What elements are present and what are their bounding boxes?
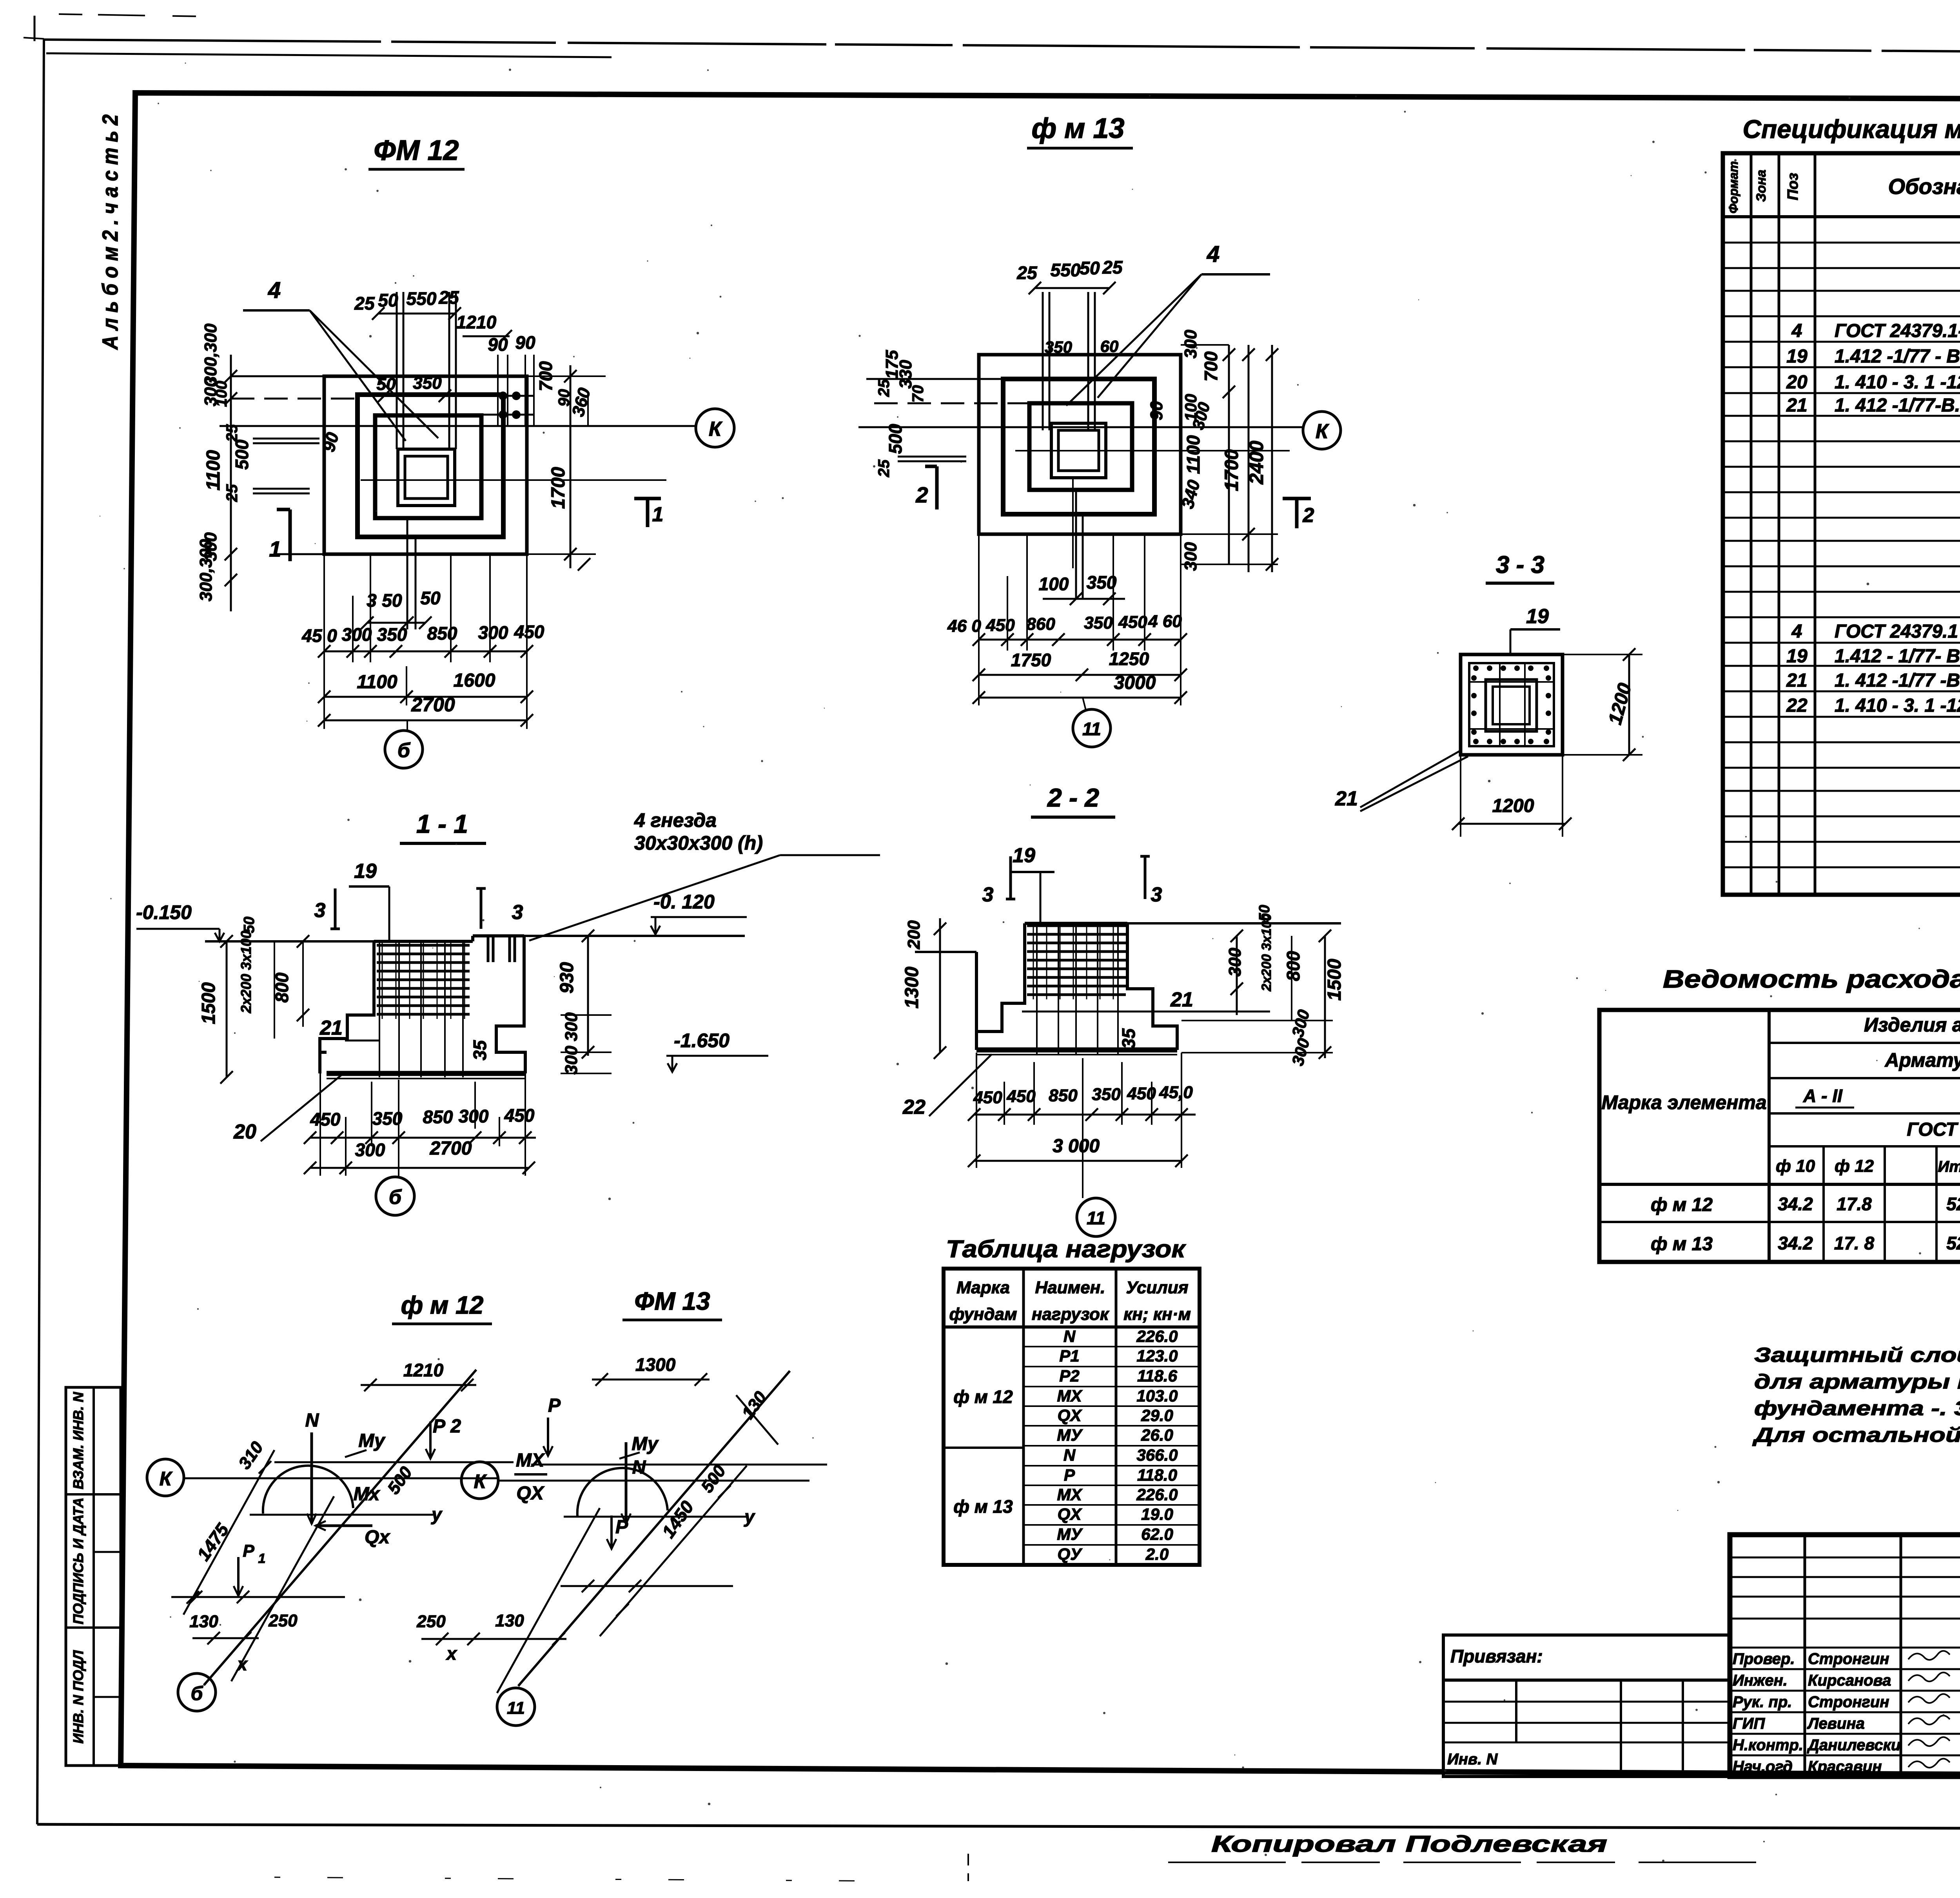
svg-text:х: х: [445, 1643, 457, 1664]
FM13 step square 1: [1003, 379, 1154, 514]
FM13 anchor bolt lines: [1042, 292, 1044, 430]
bottom small marks: [967, 1854, 969, 1881]
spec table grid: [1723, 153, 1960, 895]
section 2-2 outline left: [975, 952, 978, 1050]
svg-text:1. 410 - 3. 1 -12: 1. 410 - 3. 1 -12: [1835, 372, 1960, 393]
FM12 plan outer square: [324, 376, 527, 554]
svg-text:500: 500: [885, 424, 906, 454]
svg-text:70: 70: [909, 385, 927, 403]
svg-text:300: 300: [1225, 948, 1245, 977]
svg-text:ф 10: ф 10: [1776, 1157, 1815, 1176]
svg-text:N: N: [305, 1410, 319, 1431]
svg-text:200: 200: [904, 920, 924, 950]
FM13 column (double square): [1051, 423, 1106, 478]
title block small grid verticals: [1804, 1535, 1806, 1777]
svg-text:1 - 1: 1 - 1: [416, 809, 468, 838]
svg-text:250: 250: [416, 1612, 446, 1631]
svg-text:19: 19: [1786, 646, 1808, 667]
svg-text:QХ: QХ: [1058, 1406, 1083, 1425]
svg-text:-1.650: -1.650: [674, 1030, 730, 1051]
axo FM13 Mx arc: [577, 1468, 668, 1516]
svg-text:330: 330: [896, 360, 915, 389]
svg-text:100: 100: [1039, 574, 1069, 594]
svg-text:1600: 1600: [454, 670, 495, 691]
svg-text:Р: Р: [615, 1517, 628, 1537]
svg-text:52.0: 52.0: [1946, 1233, 1960, 1253]
svg-text:1200: 1200: [1492, 796, 1534, 816]
svg-text:К: К: [160, 1468, 173, 1490]
axo FM12 y axis: [250, 1514, 433, 1516]
svg-text:фундамента -. 35мм,: фундамента -. 35мм,: [1754, 1397, 1960, 1420]
FM12 step square 1: [358, 395, 503, 537]
svg-text:1: 1: [652, 503, 664, 526]
svg-text:К: К: [1316, 420, 1329, 443]
section 1-1 socket channels: [487, 937, 490, 962]
section 2-2 ground line left: [915, 951, 976, 953]
axo FM12 P2 arrow: [429, 1421, 432, 1459]
svg-text:90: 90: [515, 332, 535, 353]
svg-text:ф м 12: ф м 12: [953, 1387, 1013, 1407]
svg-text:QУ: QУ: [1057, 1545, 1083, 1564]
svg-text:450: 450: [1006, 1087, 1036, 1106]
svg-text:850: 850: [423, 1107, 453, 1127]
svg-text:21: 21: [319, 1017, 343, 1039]
title block small grid rows: [1730, 1557, 1960, 1559]
svg-text:Формат: Формат: [1726, 161, 1740, 214]
svg-text:у: у: [431, 1504, 443, 1525]
svg-text:Защитный слой бетона: Защитный слой бетона: [1754, 1344, 1960, 1367]
svg-text:N: N: [1063, 1446, 1076, 1464]
svg-text:1100: 1100: [203, 450, 224, 491]
svg-text:17.8: 17.8: [1837, 1194, 1872, 1214]
svg-text:3000: 3000: [1114, 673, 1156, 693]
FM13 right dim lines: [1181, 344, 1229, 346]
svg-text:4: 4: [1207, 241, 1220, 267]
svg-text:Р2: Р2: [1059, 1367, 1079, 1385]
svg-text:850: 850: [1049, 1086, 1078, 1105]
section 2-2 label 21 leader line: [1022, 1011, 1270, 1013]
detail 3-3 tie lines: [1499, 663, 1501, 746]
svg-text:103.0: 103.0: [1136, 1387, 1178, 1405]
axo FM12 bottom dim line: [192, 1637, 259, 1639]
section 1-1 base slab membrane: [327, 1071, 525, 1076]
svg-text:1100: 1100: [357, 672, 397, 692]
svg-text:450: 450: [985, 616, 1015, 635]
svg-text:550: 550: [1051, 260, 1081, 280]
svg-text:1750: 1750: [1011, 650, 1051, 670]
svg-text:19: 19: [1013, 844, 1035, 867]
svg-text:20: 20: [1786, 372, 1808, 393]
svg-text:300: 300: [1181, 542, 1200, 571]
FM13 section mark T2: [1295, 499, 1299, 528]
svg-text:130: 130: [189, 1612, 218, 1631]
svg-text:2700: 2700: [430, 1138, 472, 1159]
svg-text:45 0: 45 0: [301, 625, 337, 646]
svg-text:226.0: 226.0: [1136, 1327, 1178, 1345]
axo FM12 b circle: [178, 1673, 216, 1711]
axo FM13 bottom dim line: [421, 1638, 566, 1640]
svg-text:11: 11: [1082, 719, 1101, 739]
svg-text:Для остальной - 25 мм.: Для остальной - 25 мм.: [1752, 1424, 1960, 1447]
svg-text:50: 50: [382, 590, 402, 611]
FM12 column (double square): [398, 449, 455, 506]
svg-text:930: 930: [557, 962, 577, 993]
svg-text:300: 300: [562, 1012, 581, 1041]
svg-text:3 - 3: 3 - 3: [1496, 551, 1544, 578]
svg-text:34.2: 34.2: [1778, 1194, 1813, 1214]
svg-text:ф м 13: ф м 13: [1651, 1234, 1713, 1254]
section 2-2 pedestal top: [1025, 922, 1127, 925]
section 2-2 base membrane: [976, 1048, 1177, 1053]
loads table grid: [944, 1269, 1200, 1565]
svg-text:ф м 13: ф м 13: [953, 1496, 1013, 1517]
axo FM12 horizontal upper: [274, 1461, 514, 1463]
svg-text:-0. 120: -0. 120: [653, 891, 715, 913]
svg-text:50: 50: [378, 290, 398, 310]
FM12 step square 2: [375, 415, 481, 518]
svg-text:1300: 1300: [635, 1354, 676, 1375]
section 1-1 ground line right: [524, 935, 745, 937]
svg-text:50: 50: [377, 375, 396, 394]
section 2-2 bottom extensions: [976, 1053, 977, 1168]
vedomost grid: [1599, 1010, 1960, 1262]
svg-text:34.2: 34.2: [1778, 1233, 1813, 1253]
svg-text:2х200 3х100: 2х200 3х100: [1259, 914, 1274, 992]
svg-text:300: 300: [355, 1140, 385, 1160]
left stamp boxes: [66, 1387, 121, 1766]
svg-text:1. 410 - 3. 1 -12: 1. 410 - 3. 1 -12: [1835, 695, 1960, 716]
svg-text:4 гнезда: 4 гнезда: [634, 809, 717, 831]
svg-text:1210: 1210: [403, 1360, 444, 1380]
svg-text:52.0: 52.0: [1946, 1194, 1960, 1214]
svg-text:130: 130: [495, 1611, 524, 1630]
section 1-1 vertical bars: [379, 943, 380, 1077]
FM13 step square 2: [1029, 403, 1132, 490]
svg-text:Таблица нагрузок: Таблица нагрузок: [946, 1236, 1186, 1263]
section 1-1 ground line left: [205, 940, 374, 943]
svg-text:118.0: 118.0: [1137, 1466, 1177, 1484]
svg-text:Провер.: Провер.: [1733, 1650, 1795, 1668]
axo FM13 11 circle: [497, 1688, 535, 1726]
svg-text:25: 25: [1102, 257, 1123, 277]
svg-text:350: 350: [377, 624, 407, 645]
section 1-1 rebar cage: [377, 944, 470, 947]
svg-text:Кирсанова: Кирсанова: [1808, 1672, 1891, 1689]
svg-text:2 - 2: 2 - 2: [1047, 783, 1099, 812]
svg-text:Изделия арматурные: Изделия арматурные: [1864, 1014, 1960, 1036]
svg-text:1700: 1700: [1221, 449, 1242, 491]
svg-text:25: 25: [354, 293, 375, 314]
svg-text:Копировал Подлевская: Копировал Подлевская: [1211, 1831, 1607, 1857]
svg-text:29.0: 29.0: [1141, 1406, 1173, 1425]
axo FM13 N arrow: [625, 1442, 628, 1524]
svg-text:860: 860: [1026, 615, 1055, 634]
svg-text:1. 412 -1/77 -В.3-110: 1. 412 -1/77 -В.3-110: [1835, 670, 1960, 691]
svg-text:1250: 1250: [1109, 649, 1149, 669]
svg-text:26.0: 26.0: [1141, 1426, 1173, 1444]
svg-text:Марка элемента: Марка элемента: [1601, 1091, 1766, 1113]
svg-text:3: 3: [982, 883, 994, 906]
FM12 centre axis: [361, 479, 666, 481]
svg-text:2: 2: [915, 482, 928, 507]
axo FM13 1450 dim line: [600, 1466, 747, 1636]
svg-text:50: 50: [1080, 258, 1100, 278]
svg-text:1300: 1300: [902, 966, 922, 1008]
svg-text:35: 35: [1118, 1028, 1139, 1049]
axo FM13 main axis line: [518, 1371, 790, 1686]
svg-text:850: 850: [427, 623, 457, 644]
axo FM12 P1 arrow: [237, 1557, 240, 1596]
svg-text:1.412 -1/77 - В.3 -040: 1.412 -1/77 - В.3 -040: [1835, 346, 1960, 367]
svg-text:Итого: Итого: [1938, 1158, 1960, 1175]
svg-text:118.6: 118.6: [1137, 1367, 1178, 1385]
svg-text:4: 4: [1791, 321, 1802, 341]
svg-text:Нач.огд: Нач.огд: [1733, 1758, 1793, 1775]
svg-text:350: 350: [1087, 572, 1117, 593]
svg-text:МУ: МУ: [1057, 1426, 1083, 1444]
svg-text:21: 21: [1170, 988, 1193, 1011]
svg-text:Рук. пр.: Рук. пр.: [1733, 1693, 1792, 1711]
axo FM13 horizontal upper: [531, 1464, 827, 1466]
svg-text:кн; кн·м: кн; кн·м: [1123, 1305, 1191, 1324]
svg-text:Му: Му: [358, 1430, 386, 1451]
axo FM13 P dim line: [561, 1585, 733, 1587]
axo FM12 K circle: [147, 1459, 184, 1496]
svg-text:60: 60: [1100, 337, 1119, 355]
svg-text:19: 19: [1526, 605, 1549, 628]
svg-text:МХ: МХ: [516, 1450, 545, 1471]
section 1-1 bottom extensions: [319, 1073, 321, 1176]
FM13 left extensions: [866, 378, 1003, 380]
FM12 bottom extension verticals: [323, 554, 325, 729]
svg-text:фундам: фундам: [949, 1305, 1017, 1324]
svg-text:50: 50: [420, 588, 441, 608]
svg-text:90: 90: [488, 334, 508, 355]
FM12 vertical channel below: [407, 518, 408, 629]
FM13 axis circle K: [1303, 412, 1341, 449]
svg-text:500: 500: [232, 439, 252, 470]
FM13 left bracket lines: [898, 456, 966, 458]
svg-text:К: К: [709, 418, 722, 441]
svg-text:Зона: Зона: [1754, 170, 1769, 202]
svg-text:Стронгин: Стронгин: [1808, 1693, 1889, 1711]
svg-text:Р1: Р1: [1059, 1347, 1079, 1365]
svg-text:4: 4: [268, 277, 281, 303]
svg-text:А л ь б о м 2 . ч а с т ь 2: А л ь б о м 2 . ч а с т ь 2: [98, 114, 122, 350]
svg-text:К: К: [474, 1470, 487, 1492]
svg-text:350: 350: [1045, 338, 1072, 356]
svg-text:нагрузок: нагрузок: [1032, 1305, 1110, 1324]
top-left corner artifacts: [34, 16, 36, 41]
svg-text:11: 11: [507, 1699, 525, 1718]
svg-text:для арматуры подошвы: для арматуры подошвы: [1754, 1370, 1960, 1393]
svg-text:ГИП: ГИП: [1733, 1715, 1765, 1732]
FM13 plan outer square: [979, 355, 1181, 534]
svg-text:х: х: [236, 1654, 248, 1674]
section 2-2 outline right: [1127, 923, 1177, 1050]
svg-text:450: 450: [1118, 613, 1147, 632]
svg-text:22: 22: [902, 1096, 926, 1118]
svg-text:ГОСТ 24379.1 -80: ГОСТ 24379.1 -80: [1835, 621, 1960, 642]
axo FM12 K axis: [184, 1477, 497, 1479]
svg-text:б: б: [191, 1682, 204, 1704]
svg-text:21: 21: [1786, 670, 1807, 691]
axo FM12 1475 dim line: [183, 1450, 274, 1615]
svg-text:21: 21: [1786, 395, 1807, 416]
FM13 bottom channel: [1075, 490, 1077, 600]
svg-text:-0.150: -0.150: [136, 901, 192, 923]
FM12 bolt axis short lines: [463, 395, 533, 397]
svg-text:Н.контр.: Н.контр.: [1733, 1737, 1803, 1754]
svg-text:46 0: 46 0: [947, 616, 981, 636]
svg-text:Спецификация монолитных фунд: Спецификация монолитных фундаментов Фм 1…: [1743, 114, 1960, 143]
svg-text:800: 800: [1283, 951, 1303, 981]
svg-text:ф 12: ф 12: [1835, 1157, 1874, 1176]
svg-text:ПОДПИСЬ И ДАТА: ПОДПИСЬ И ДАТА: [70, 1497, 86, 1624]
axo FM12 N arrow: [310, 1432, 313, 1524]
axo FM13 P arrow upper: [547, 1418, 549, 1456]
svg-text:QХ: QХ: [516, 1483, 544, 1504]
svg-text:45,0: 45,0: [1159, 1083, 1193, 1102]
FM13 centre axis: [1015, 450, 1290, 451]
svg-text:2х200 3х100: 2х200 3х100: [238, 931, 254, 1013]
FM12 anchor bolts top pair lines: [396, 292, 398, 449]
section 1-1 outline: [320, 941, 374, 1073]
svg-text:Р: Р: [243, 1541, 254, 1561]
svg-text:Усилия: Усилия: [1126, 1278, 1188, 1297]
svg-text:11: 11: [1087, 1208, 1105, 1228]
svg-text:25: 25: [438, 287, 459, 308]
axo FM12 Mx arc: [263, 1466, 353, 1514]
FM12 axis line K: [220, 425, 696, 427]
svg-text:1210: 1210: [456, 312, 497, 332]
svg-text:Наимен.: Наимен.: [1035, 1278, 1105, 1297]
svg-text:Р: Р: [548, 1395, 561, 1416]
svg-text:50: 50: [1256, 905, 1273, 921]
svg-text:ВЗАМ. ИНВ. N: ВЗАМ. ИНВ. N: [70, 1392, 86, 1489]
svg-text:ГОСТ 5781- 82: ГОСТ 5781- 82: [1907, 1119, 1960, 1140]
svg-text:450: 450: [973, 1088, 1002, 1107]
privyazan grid: [1443, 1680, 1730, 1777]
svg-text:4: 4: [1791, 621, 1802, 642]
FM13 section mark 2: [935, 466, 939, 509]
svg-text:ф м 12: ф м 12: [1651, 1195, 1713, 1215]
svg-text:Мх: Мх: [354, 1484, 381, 1505]
svg-text:Стронгин: Стронгин: [1808, 1650, 1889, 1668]
svg-text:300: 300: [478, 622, 508, 643]
svg-text:450: 450: [504, 1105, 535, 1126]
privyazan box: [1443, 1635, 1730, 1680]
svg-text:МХ: МХ: [1057, 1387, 1083, 1405]
svg-text:366.0: 366.0: [1136, 1446, 1178, 1464]
section 2-2 vertical bars: [1036, 925, 1038, 1054]
svg-text:450: 450: [310, 1109, 341, 1129]
svg-text:123.0: 123.0: [1136, 1347, 1178, 1365]
svg-text:17. 8: 17. 8: [1834, 1233, 1875, 1253]
svg-text:4 60: 4 60: [1148, 612, 1182, 631]
svg-text:3: 3: [1151, 883, 1162, 906]
svg-text:Красавин: Красавин: [1808, 1758, 1882, 1775]
svg-text:Привязан:: Привязан:: [1450, 1646, 1543, 1666]
svg-text:1700: 1700: [548, 467, 569, 509]
svg-text:20: 20: [233, 1120, 256, 1143]
svg-text:ф м 13: ф м 13: [1031, 113, 1124, 144]
svg-text:25: 25: [223, 424, 241, 442]
section 2-2 circle 11: [1077, 1198, 1115, 1236]
svg-text:250: 250: [268, 1611, 298, 1630]
section 2-2 ground line right: [1127, 922, 1341, 925]
axo FM13 K axis: [498, 1480, 809, 1482]
FM13 bottom extension verticals: [978, 534, 980, 705]
axo FM12 Qx arrow: [316, 1525, 372, 1527]
svg-text:350: 350: [413, 373, 442, 393]
svg-text:МХ: МХ: [1057, 1485, 1083, 1504]
svg-text:300,300: 300,300: [201, 323, 220, 386]
svg-text:550: 550: [407, 288, 437, 309]
axo FM13 P arrow lower: [610, 1515, 613, 1549]
svg-text:Инв. N: Инв. N: [1447, 1751, 1498, 1768]
FM12 bolt dots: [499, 392, 507, 400]
svg-text:ГОСТ 24379.1-80: ГОСТ 24379.1-80: [1835, 321, 1960, 341]
svg-text:QХ: QХ: [1058, 1505, 1083, 1524]
svg-text:б: б: [397, 739, 411, 762]
svg-text:2700: 2700: [411, 694, 455, 716]
svg-text:300: 300: [1181, 330, 1200, 359]
svg-text:300: 300: [562, 1046, 581, 1075]
svg-text:Инжен.: Инжен.: [1733, 1672, 1788, 1689]
svg-text:3: 3: [314, 899, 326, 922]
axo FM12 main axis line: [204, 1370, 476, 1685]
section 2-2 rebar cage: [1027, 925, 1126, 927]
svg-text:3: 3: [512, 901, 523, 924]
svg-text:1. 412 -1/77-В.3 -110: 1. 412 -1/77-В.3 -110: [1835, 395, 1960, 416]
svg-text:19: 19: [354, 860, 377, 883]
title block outline: [1730, 1535, 1960, 1777]
svg-text:3 000: 3 000: [1053, 1136, 1100, 1157]
svg-text:N: N: [1063, 1327, 1076, 1345]
svg-text:ИНВ. N ПОДЛ: ИНВ. N ПОДЛ: [70, 1650, 86, 1744]
svg-text:21: 21: [1335, 787, 1358, 810]
svg-text:б: б: [389, 1186, 402, 1209]
axo FM13 y axis: [564, 1516, 747, 1518]
svg-text:3: 3: [367, 590, 377, 611]
svg-text:90: 90: [1147, 401, 1166, 420]
svg-text:300,300: 300,300: [196, 539, 216, 602]
svg-text:МУ: МУ: [1057, 1525, 1083, 1543]
axo FM13 x axis line: [497, 1508, 600, 1693]
axo FM12 P1 dim line: [171, 1596, 345, 1598]
svg-text:25: 25: [875, 379, 893, 397]
FM12 right dim lines: [570, 365, 572, 568]
svg-text:226.0: 226.0: [1136, 1485, 1178, 1504]
axo FM13 K circle: [461, 1462, 498, 1499]
svg-text:ФМ 13: ФМ 13: [634, 1287, 710, 1315]
svg-text:25: 25: [875, 459, 893, 477]
axo FM12 x axis line: [231, 1496, 334, 1681]
svg-text:2.0: 2.0: [1145, 1545, 1169, 1563]
svg-text:Марка: Марка: [956, 1278, 1010, 1297]
svg-text:N: N: [632, 1457, 646, 1478]
svg-text:2: 2: [1303, 504, 1314, 527]
svg-text:30х30х300 (h): 30х30х300 (h): [634, 832, 763, 854]
svg-text:700: 700: [1201, 351, 1221, 381]
svg-text:Р 2: Р 2: [433, 1416, 461, 1437]
svg-text:25: 25: [1016, 263, 1038, 283]
svg-text:Ведомость расхода стали на: Ведомость расхода стали на один элемент,…: [1663, 965, 1960, 993]
svg-text:350: 350: [1092, 1085, 1121, 1104]
svg-text:Му: Му: [632, 1434, 659, 1454]
svg-text:1100: 1100: [1183, 435, 1203, 474]
